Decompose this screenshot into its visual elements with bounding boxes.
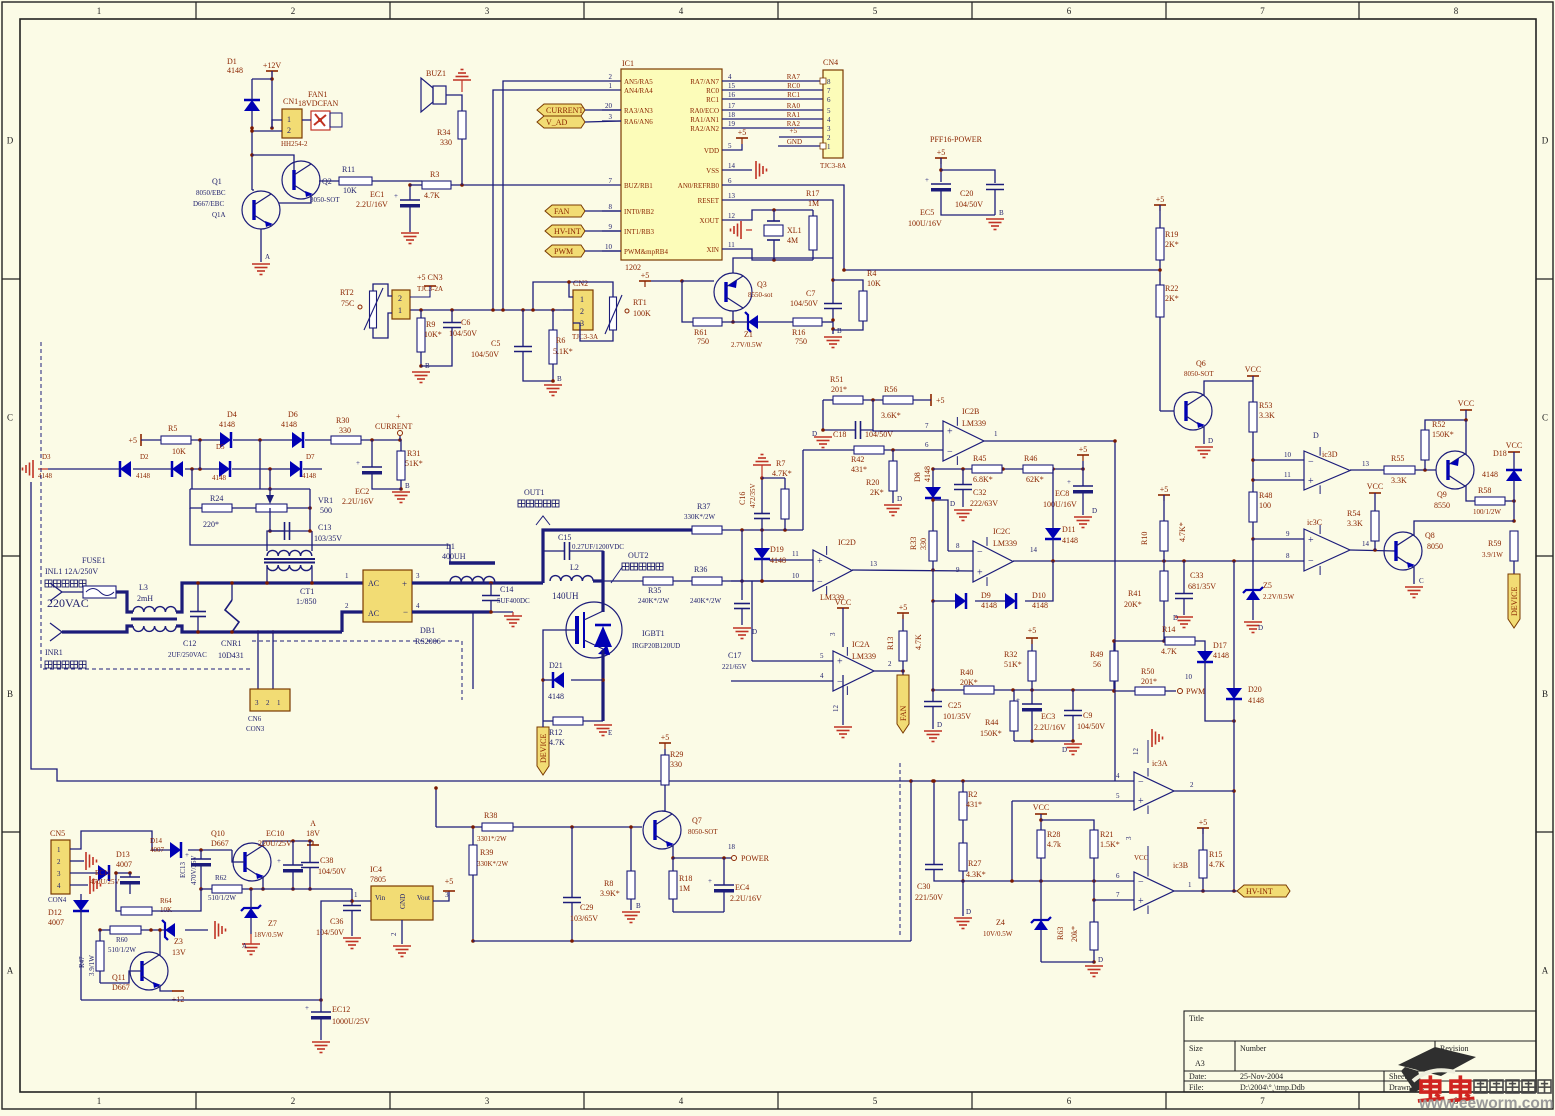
resistor R2 [959,792,967,820]
svg-text:C17: C17 [728,651,741,660]
resistor R21 [1090,830,1098,858]
svg-text:D: D [1098,956,1103,964]
svg-text:IC2A: IC2A [852,640,870,649]
svg-text:TJC3-8A: TJC3-8A [820,162,846,170]
svg-text:VDD: VDD [704,147,719,155]
capacitor C9 [1064,710,1082,712]
transistor Q6 [1174,392,1212,430]
svg-text:D:\2004\°¸\tmp.Ddb: D:\2004\°¸\tmp.Ddb [1240,1083,1305,1092]
ground D (R27) [954,918,972,929]
title block [1184,1011,1536,1092]
svg-text:4: 4 [679,6,684,16]
resistor R59 [1510,531,1518,561]
transistor Q7 [643,811,681,849]
wire +5-R5 [141,439,161,441]
svg-text:R48: R48 [1259,491,1272,500]
svg-text:103/65V: 103/65V [570,914,598,923]
svg-text:5.1K*: 5.1K* [553,347,573,356]
svg-text:D19: D19 [770,545,784,554]
wire IC2B out [984,441,1115,781]
svg-text:240K*/2W: 240K*/2W [690,597,722,605]
svg-text:18V: 18V [306,829,320,838]
resistor R12 [553,717,583,725]
svg-text:Q11: Q11 [112,973,125,982]
svg-text:R35: R35 [648,586,661,595]
capacitor EC5 [931,183,951,185]
svg-text:750: 750 [697,337,709,346]
wire IC2D pin10 [731,580,813,582]
svg-text:221/65V: 221/65V [722,663,747,671]
capacitor C18 [855,421,857,439]
wire IC2A in5 [752,660,833,662]
svg-text:GND: GND [787,138,802,146]
svg-text:9: 9 [609,223,613,231]
resistor R46 [1023,465,1053,473]
wire IC1-RC1 [722,98,823,100]
wire Z5 col [1252,539,1254,590]
svg-text:VCC: VCC [1245,365,1261,374]
ground XL1 [731,221,742,239]
svg-text:D2: D2 [140,453,149,461]
resistor R40 [964,686,994,694]
resistor R19 [1156,228,1164,260]
svg-text:B: B [999,209,1004,217]
svg-text:100K: 100K [633,309,651,318]
resistor R38 [482,823,513,831]
svg-text:Z4: Z4 [996,918,1005,927]
svg-text:VSS: VSS [706,167,719,175]
svg-text:C: C [1542,413,1548,423]
connector CN5 [51,840,70,894]
svg-text:R27: R27 [968,859,981,868]
capacitor C30 [925,864,943,866]
svg-text:4148: 4148 [281,420,297,429]
svg-text:3: 3 [485,1096,490,1106]
svg-text:+: + [1138,896,1144,907]
wire R14-D17 [1195,641,1205,651]
svg-text:500: 500 [320,506,332,515]
resistor R3 [422,181,451,189]
svg-text:2: 2 [345,602,349,610]
svg-text:C20: C20 [960,189,973,198]
svg-text:INR1: INR1 [45,648,63,657]
port POWER [732,856,737,861]
wire ic3B in7 [1094,899,1134,901]
svg-text:4148: 4148 [981,601,997,610]
svg-text:104/50V: 104/50V [318,867,346,876]
svg-text:R62: R62 [215,874,227,882]
svg-text:3: 3 [609,113,613,121]
svg-text:D17: D17 [1213,641,1227,650]
svg-text:100U/16V: 100U/16V [908,219,942,228]
wire rail up to Vin [321,901,352,1000]
svg-text:Size: Size [1189,1044,1203,1053]
svg-text:2.2V/0.5W: 2.2V/0.5W [1263,593,1295,601]
resistor R18 [669,871,677,899]
svg-text:IRGP20B120UD: IRGP20B120UD [632,642,680,650]
wire Q6 emitter [1203,427,1205,444]
wire R47 top [69,848,71,850]
wire Q11 collector [159,930,161,956]
svg-text:+: + [1308,535,1314,546]
power +12V [266,70,278,72]
svg-text:C9: C9 [1083,711,1092,720]
wire IC1-RA2 [722,127,823,129]
svg-text:104/50V: 104/50V [955,200,983,209]
svg-text:56: 56 [1093,660,1101,669]
capacitor C15 [564,542,566,560]
svg-text:470U/25V: 470U/25V [90,878,120,886]
wire R16-C7 [822,321,833,323]
capacitor C25 [924,701,942,703]
svg-text:R5: R5 [168,424,177,433]
bus INL top [116,592,133,612]
svg-text:EC8: EC8 [1055,489,1069,498]
svg-text:10K: 10K [867,279,881,288]
svg-text:BUZ/RB1: BUZ/RB1 [624,182,653,190]
svg-text:L1: L1 [446,542,455,551]
ground B (R6) [544,385,562,396]
svg-text:11: 11 [1284,471,1291,479]
inductor L3 core [131,618,177,621]
svg-text:6: 6 [925,441,929,449]
svg-text:7: 7 [1116,891,1120,899]
bridge DB1 [363,570,412,622]
svg-text:R17: R17 [806,189,819,198]
diode D5 [219,461,230,477]
svg-text:18V/0.5W: 18V/0.5W [254,931,284,939]
ground D (R20) [884,505,902,516]
svg-text:C15: C15 [558,533,571,542]
label INL1 cn [45,580,86,587]
svg-text:10K: 10K [343,186,357,195]
svg-text:330: 330 [440,138,452,147]
svg-text:103/35V: 103/35V [314,534,342,543]
wire Q3 base [682,280,714,282]
wire IC2B pin7 [873,430,943,431]
fan FAN1 [311,111,330,130]
wire IGBT gate [543,630,577,721]
svg-text:AN4/RA4: AN4/RA4 [624,87,653,95]
svg-text:2: 2 [609,73,613,81]
svg-text:2: 2 [291,1096,296,1106]
svg-text:7: 7 [1260,1096,1265,1106]
port OUT2 [611,566,623,583]
svg-text:E: E [608,729,612,737]
wire RT2-CN3 [373,284,392,296]
buzzer BUZ1 [433,86,446,104]
svg-text:+: + [837,657,843,668]
wire sense rail [190,508,450,563]
potentiometer VR1 [256,504,287,512]
wire row y690 [933,689,1114,691]
svg-text:D: D [1173,614,1178,622]
svg-text:3.6K*: 3.6K* [881,411,901,420]
resistor R64 [121,907,152,915]
capacitor C16 [754,513,770,515]
svg-text:CN5: CN5 [50,829,65,838]
diode D8 [925,487,941,498]
svg-text:14: 14 [1362,540,1370,548]
svg-text:Z3: Z3 [174,937,183,946]
wire IC4 gnd [401,920,403,944]
resistor R4 [859,291,867,321]
svg-text:FAN: FAN [899,705,908,721]
svg-text:4148: 4148 [923,466,932,482]
svg-text:IC2D: IC2D [838,538,856,547]
svg-text:C: C [1419,577,1424,585]
resistor R6 [549,330,557,364]
resistor R62 [212,885,242,893]
diode D13 [98,865,109,881]
power +5 R15 [1197,827,1209,829]
svg-text:ic3C: ic3C [1307,518,1322,527]
svg-text:16: 16 [728,91,736,99]
svg-text:100/1/2W: 100/1/2W [1473,508,1501,516]
resistor R39 [469,845,477,875]
wire ic3C in9 [1253,538,1304,540]
svg-text:VR1: VR1 [318,496,333,505]
svg-text:EC1: EC1 [370,190,384,199]
svg-text:A3: A3 [1195,1059,1205,1068]
resistor R20 [889,461,897,491]
resistor R32 [1028,651,1036,681]
svg-text:4148: 4148 [1062,536,1078,545]
svg-text:D: D [1062,746,1067,754]
svg-text:4148: 4148 [1248,696,1264,705]
svg-text:3.9/1W: 3.9/1W [88,955,96,976]
svg-text:+: + [277,857,281,865]
svg-text:D10: D10 [1032,591,1046,600]
wire R38 feed [435,788,437,827]
wire EC5/C20 top [940,158,942,182]
wire D1 to Q1 node [251,111,253,190]
capacitor EC10 [283,864,303,866]
svg-text:1: 1 [609,82,613,90]
svg-text:330K*/2W: 330K*/2W [684,513,716,521]
svg-text:PWM&mpRB4: PWM&mpRB4 [624,248,668,256]
svg-text:C14: C14 [500,585,513,594]
svg-text:−: − [977,547,983,558]
wire ic3D in10 [1253,459,1304,461]
svg-text:RA1/AN1: RA1/AN1 [690,116,719,124]
svg-text:R54: R54 [1347,509,1360,518]
svg-text:4.7K*: 4.7K* [772,469,792,478]
svg-text:4148: 4148 [302,472,317,480]
svg-text:R28: R28 [1047,830,1060,839]
svg-text:5: 5 [1116,792,1120,800]
svg-text:Q7: Q7 [692,816,702,825]
svg-text:EC5: EC5 [920,208,934,217]
svg-text:1000U/25V: 1000U/25V [332,1017,370,1026]
svg-text:4: 4 [57,882,61,890]
power +5 EC5 [935,157,947,159]
svg-text:−: − [817,576,823,587]
svg-text:4.7K: 4.7K [1161,647,1177,656]
transistor Q1 [242,191,280,229]
svg-text:C5: C5 [491,339,500,348]
transistor Q11 [130,952,168,990]
wire x933 [932,601,934,700]
wire IC1-RA1 [722,118,823,120]
capacitor C29 [563,897,581,899]
svg-text:1M: 1M [808,199,819,208]
svg-text:D18: D18 [1493,449,1507,458]
wire BUZ1-R34 [446,95,462,111]
svg-text:EC4: EC4 [735,883,749,892]
resistor R49 [1110,651,1118,681]
wire D10-D11 [1025,561,1053,601]
svg-text:10D431: 10D431 [218,651,244,660]
svg-text:ic3D: ic3D [1322,450,1338,459]
svg-text:13: 13 [728,192,736,200]
svg-text:3301*/2W: 3301*/2W [477,835,507,843]
svg-text:+: + [1308,476,1314,487]
svg-text:R22: R22 [1165,284,1178,293]
svg-text:R58: R58 [1478,486,1491,495]
svg-text:R33: R33 [909,537,918,550]
svg-text:10K: 10K [172,447,186,456]
diode D20 [1226,688,1242,699]
resistor R56 [883,396,913,404]
svg-text:R31: R31 [407,449,420,458]
svg-text:A: A [265,253,270,261]
ground red IC2A [834,727,852,738]
wire R27 gnd [962,881,964,916]
bus IGBT collector [601,607,604,612]
svg-text:EC2: EC2 [355,487,369,496]
svg-text:Q3: Q3 [757,280,767,289]
resistor R14 [1165,637,1195,645]
svg-text:CON4: CON4 [48,896,67,904]
wire R24-VR1 [232,507,256,509]
resistor R41 [1160,571,1168,601]
wire link x742 [741,530,743,600]
wire Q10 collector [263,841,313,847]
resistor R15 [1199,850,1207,878]
bus L2 right [601,551,604,607]
svg-text:8: 8 [1286,552,1290,560]
connector CN3 (TJC3-2A) [392,290,410,319]
ground B (C7) [824,337,842,348]
svg-text:7805: 7805 [370,875,386,884]
svg-text:D: D [1208,437,1213,445]
svg-text:4: 4 [679,1096,684,1106]
svg-text:+: + [947,427,953,438]
diode D12 [73,900,89,911]
svg-text:EC3: EC3 [1041,712,1055,721]
svg-text:R24: R24 [210,494,223,503]
svg-text:D: D [950,500,955,508]
svg-text:CURRENT: CURRENT [546,106,583,115]
svg-text:C36: C36 [330,917,343,926]
svg-text:7: 7 [609,177,613,185]
svg-text:IC4: IC4 [370,865,382,874]
ground red ic3A [1152,729,1163,747]
svg-text:3.3K: 3.3K [1347,519,1363,528]
svg-text:9: 9 [956,566,960,574]
svg-text:B: B [7,689,13,699]
wire Q11 base [100,971,142,983]
svg-text:10K: 10K [160,906,172,914]
transformer CT1 coil2 [267,565,312,571]
svg-text:R9: R9 [426,320,435,329]
svg-text:+5: +5 [661,733,670,742]
ground B (R8) [622,912,640,923]
svg-text:RA7/AN7: RA7/AN7 [690,78,719,86]
resistor R42 [854,446,884,454]
svg-text:2.2U/16V: 2.2U/16V [1034,723,1066,732]
power +5 R19 [1154,204,1166,206]
flag CURRENT [537,104,585,116]
wire R64 ends [116,873,121,911]
svg-text:DEVICE: DEVICE [539,734,548,763]
svg-text:R52: R52 [1432,420,1445,429]
svg-text:2.2U/16V: 2.2U/16V [356,200,388,209]
svg-text:EC10: EC10 [266,829,284,838]
svg-text:220VAC: 220VAC [47,596,89,610]
svg-text:150K*: 150K* [980,729,1002,738]
svg-text:3: 3 [485,6,490,16]
wire Q1 emitter to gnd [260,229,262,262]
resistor R48 [1249,492,1257,522]
resistor R45 [972,465,1002,473]
svg-text:8: 8 [956,542,960,550]
IGBT IGBT1 [566,602,622,658]
svg-text:104/50V: 104/50V [449,329,477,338]
svg-text:1: 1 [57,846,61,854]
resistor R5 [161,436,191,444]
svg-text:R49: R49 [1090,650,1103,659]
svg-text:B: B [557,375,562,383]
svg-text:8: 8 [827,78,831,86]
power +5 Q3 [639,280,651,282]
svg-text:1: 1 [1188,881,1192,889]
svg-text:R59: R59 [1488,539,1501,548]
svg-text:AN0/REFRB0: AN0/REFRB0 [678,182,720,190]
svg-text:R13: R13 [886,637,895,650]
svg-text:IGBT1: IGBT1 [642,629,665,638]
svg-text:6: 6 [1116,872,1120,880]
svg-text:RA0: RA0 [787,102,801,110]
svg-text:R3: R3 [430,170,439,179]
wire z4 rail [1041,961,1094,963]
flag PWM [545,245,585,257]
flag HV-INT [545,225,585,237]
svg-text:+: + [1138,796,1144,807]
svg-text:4.7K: 4.7K [424,191,440,200]
wire IC1 pin2 run [503,81,621,310]
svg-text:8050-SOT: 8050-SOT [688,828,718,836]
svg-text:EC11: EC11 [95,869,111,877]
resistor R37 [692,526,722,534]
zener Z7 [241,905,261,911]
wire IC1 pin1 run [493,90,621,310]
wire CN2 pin2 [563,309,573,311]
svg-text:FUSE1: FUSE1 [82,556,106,565]
svg-text:B: B [837,327,842,335]
capacitor EC12 [311,1011,331,1013]
svg-text:R44: R44 [985,718,998,727]
svg-text:A: A [310,819,316,828]
wire R37-right [722,529,803,531]
wire left rail [31,482,911,781]
svg-text:C30: C30 [917,882,930,891]
wire Q6 collector [1204,381,1253,396]
wire CT1 secondary taps [257,632,259,689]
svg-text:R36: R36 [694,565,707,574]
svg-text:+12V: +12V [263,61,282,70]
